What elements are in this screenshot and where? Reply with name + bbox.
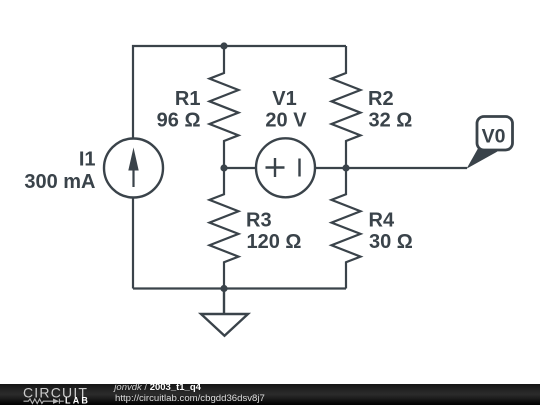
- node junction mid-left: [220, 164, 227, 171]
- svg-text:R4: R4: [369, 209, 395, 231]
- svg-text:20 V: 20 V: [265, 110, 307, 132]
- wire left rail lower: [132, 198, 134, 288]
- resistor R4: [332, 168, 361, 289]
- svg-text:120 Ω: 120 Ω: [247, 231, 302, 253]
- resistor R2: [332, 46, 361, 168]
- wire top-right segment: [224, 45, 346, 47]
- label R4 value: [369, 209, 413, 253]
- current source I1: [104, 139, 163, 198]
- footer credit text: [114, 384, 201, 392]
- svg-text:30 Ω: 30 Ω: [369, 231, 413, 253]
- resistor R3: [210, 168, 239, 289]
- wire node to V1 left: [224, 167, 256, 169]
- ground: [201, 289, 248, 336]
- node V0 flag: [467, 117, 513, 169]
- label R2 value: [368, 88, 412, 132]
- wire node to V0: [346, 167, 467, 169]
- footer bar: [0, 384, 540, 405]
- wire V1 right to node: [316, 167, 347, 169]
- svg-text:R2: R2: [368, 88, 394, 110]
- wire bottom: [133, 287, 346, 289]
- svg-text:I1: I1: [79, 149, 96, 171]
- label R3 value: [246, 209, 301, 253]
- label V1 value: [265, 88, 307, 132]
- svg-text:300 mA: 300 mA: [24, 171, 95, 193]
- resistor R1: [210, 46, 239, 168]
- svg-text:R3: R3: [246, 209, 272, 231]
- node junction top: [220, 42, 227, 49]
- CircuitLab logo: [0, 383, 100, 405]
- label I1 value: [24, 149, 95, 193]
- svg-text:32 Ω: 32 Ω: [369, 110, 413, 132]
- footer url text: [115, 393, 265, 404]
- svg-text:LAB: LAB: [65, 395, 90, 405]
- node junction bottom: [220, 285, 227, 292]
- svg-text:96 Ω: 96 Ω: [157, 110, 201, 132]
- svg-text:V1: V1: [272, 88, 296, 110]
- wire top-left segment: [133, 46, 224, 138]
- svg-text:V0: V0: [482, 126, 506, 148]
- node junction mid-right: [342, 164, 349, 171]
- svg-text:R1: R1: [175, 88, 201, 110]
- voltage source V1: [256, 138, 315, 197]
- label R1 value: [157, 88, 201, 132]
